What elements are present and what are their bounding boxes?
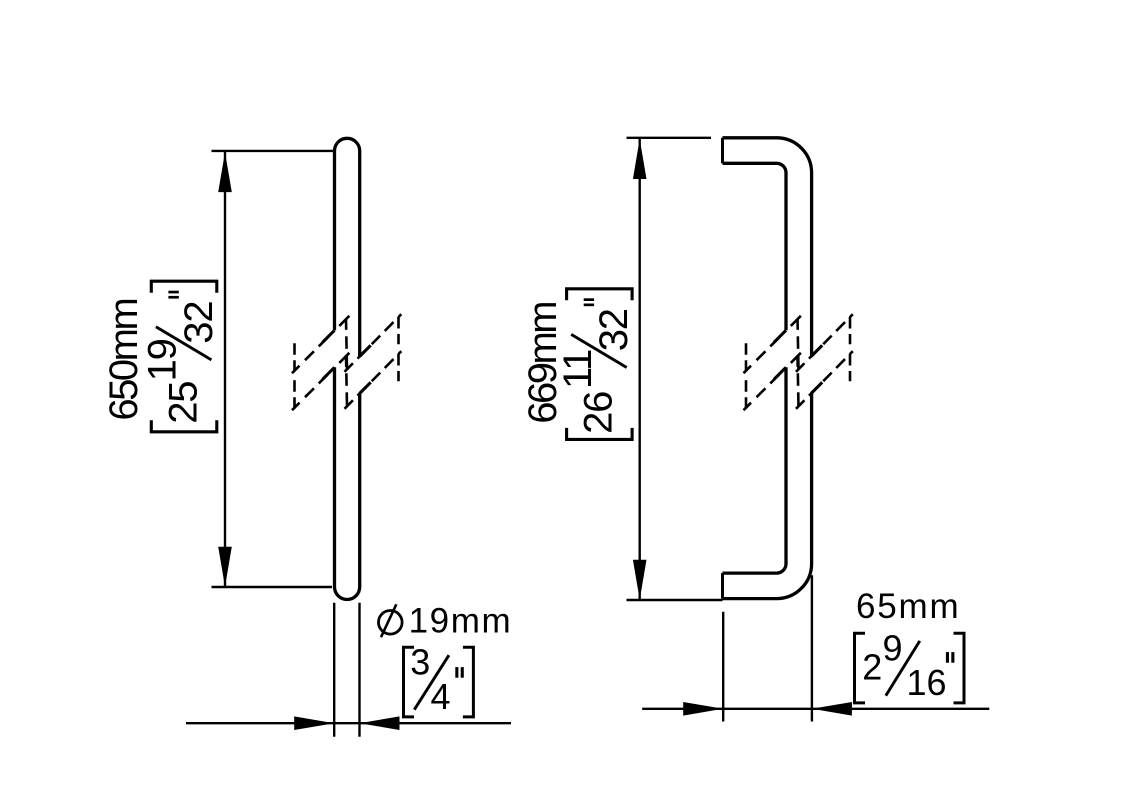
svg-text:650mm: 650mm (102, 300, 146, 421)
dimension 650mm: bottom extension line (212, 586, 333, 588)
dimension 65mm: arrow right (683, 702, 723, 716)
dimension 650mm: vertical dimension line (224, 152, 226, 586)
label 669mm (rotated) (521, 303, 565, 424)
diameter symbol (379, 611, 403, 635)
svg-text:11: 11 (556, 350, 600, 389)
handle side view: outer profile top (723, 138, 812, 357)
dimension 19mm: horizontal dimension line (186, 722, 511, 724)
handle front view: capsule outline upper piece (335, 138, 360, 356)
handle side view: inner profile bottom (723, 367, 787, 573)
dimension 65mm: left extension line (722, 612, 724, 722)
dimension 19mm: right extension line (358, 603, 360, 737)
svg-text:26: 26 (577, 392, 621, 434)
dimension 650mm: arrow down (218, 547, 232, 587)
label 650mm (rotated) (102, 300, 146, 421)
dimension 669mm: vertical dimension line (639, 139, 641, 600)
dimension 65mm: arrow left (812, 702, 852, 716)
handle side view: inner profile top (723, 163, 787, 330)
dimension 669mm: top extension line (627, 137, 712, 139)
svg-text:19: 19 (141, 339, 185, 381)
label [3/4"] (404, 641, 474, 717)
dimension 19mm: arrow right (294, 716, 334, 730)
svg-text:32: 32 (177, 302, 221, 344)
svg-text:4: 4 (431, 676, 451, 717)
svg-text:32: 32 (592, 309, 636, 351)
svg-text:25: 25 (161, 382, 205, 424)
label [25 19/32"] (rotated) (141, 281, 221, 432)
dimension 65mm: horizontal dimension line (642, 708, 989, 710)
dimension 669mm: arrow down (633, 560, 647, 600)
dimension 669mm: bottom extension line (627, 599, 723, 601)
dimension 650mm: arrow up (218, 152, 232, 192)
dimension 65mm: right extension line (811, 575, 813, 721)
break symbol on front view (292, 314, 401, 410)
svg-text:65mm: 65mm (856, 587, 960, 626)
svg-text:16: 16 (907, 662, 947, 703)
handle side view: open end bottom (721, 573, 724, 599)
handle front view: capsule outline lower piece (335, 367, 360, 599)
dimension 19mm: arrow left (360, 716, 400, 730)
handle side view: outer profile bottom (723, 393, 812, 598)
svg-text:19mm: 19mm (409, 602, 513, 641)
dimension 650mm: top extension line (212, 150, 334, 152)
break symbol on side view (744, 314, 853, 410)
handle side view: open end top (721, 138, 724, 164)
label [2 9/16"] (855, 627, 965, 703)
svg-text:9: 9 (883, 627, 903, 668)
svg-text:2: 2 (862, 647, 882, 688)
label [26 11/32"] (rotated) (556, 289, 636, 440)
dimension 19mm: left extension line (333, 603, 335, 737)
dimension 669mm: arrow up (633, 139, 647, 179)
